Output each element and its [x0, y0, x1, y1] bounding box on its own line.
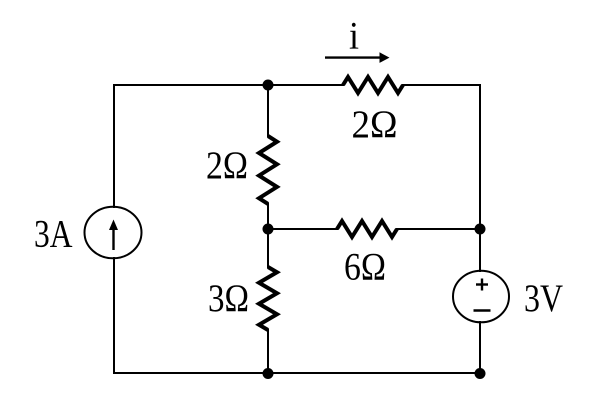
svg-text:2Ω: 2Ω: [352, 103, 398, 146]
wire middle branch left segment: [268, 228, 337, 230]
node junction top middle: [263, 80, 274, 91]
resistor R4 3ohm lower vertical: [259, 267, 277, 330]
svg-text:2Ω: 2Ω: [206, 144, 248, 187]
wire right vertical lower: [479, 322, 481, 373]
current source I1 circle: [85, 207, 142, 259]
node junction right middle: [475, 224, 486, 235]
svg-text:3Ω: 3Ω: [208, 277, 249, 320]
wire right vertical middle: [479, 229, 481, 271]
resistor R1 2ohm top: [343, 77, 403, 93]
wire middle vertical top: [267, 85, 269, 136]
svg-text:i: i: [349, 15, 359, 58]
svg-text:6Ω: 6Ω: [344, 246, 386, 289]
wire left vertical lower: [113, 258, 115, 373]
node junction bottom right: [475, 368, 486, 379]
wire bottom: [114, 372, 480, 374]
node junction center: [263, 224, 274, 235]
svg-text:3A: 3A: [34, 212, 73, 255]
voltage source V1 circle: [453, 271, 509, 323]
wire top left segment: [114, 84, 343, 86]
voltage source V1 minus sign: [474, 309, 491, 311]
node junction bottom middle: [263, 368, 274, 379]
current arrow i: [325, 52, 390, 63]
wire left vertical upper: [113, 85, 115, 207]
resistor R3 6ohm middle branch: [337, 221, 397, 237]
current source I1 arrow: [109, 220, 118, 251]
wire middle branch right segment: [397, 228, 480, 230]
wire top right segment: [403, 84, 480, 86]
voltage source V1 plus sign: [476, 279, 488, 291]
resistor R2 2ohm middle vertical: [259, 136, 277, 204]
wire middle vertical between resistors: [267, 204, 269, 267]
wire right vertical upper: [479, 85, 481, 229]
svg-text:3V: 3V: [524, 277, 563, 320]
wire middle vertical bottom: [267, 330, 269, 373]
